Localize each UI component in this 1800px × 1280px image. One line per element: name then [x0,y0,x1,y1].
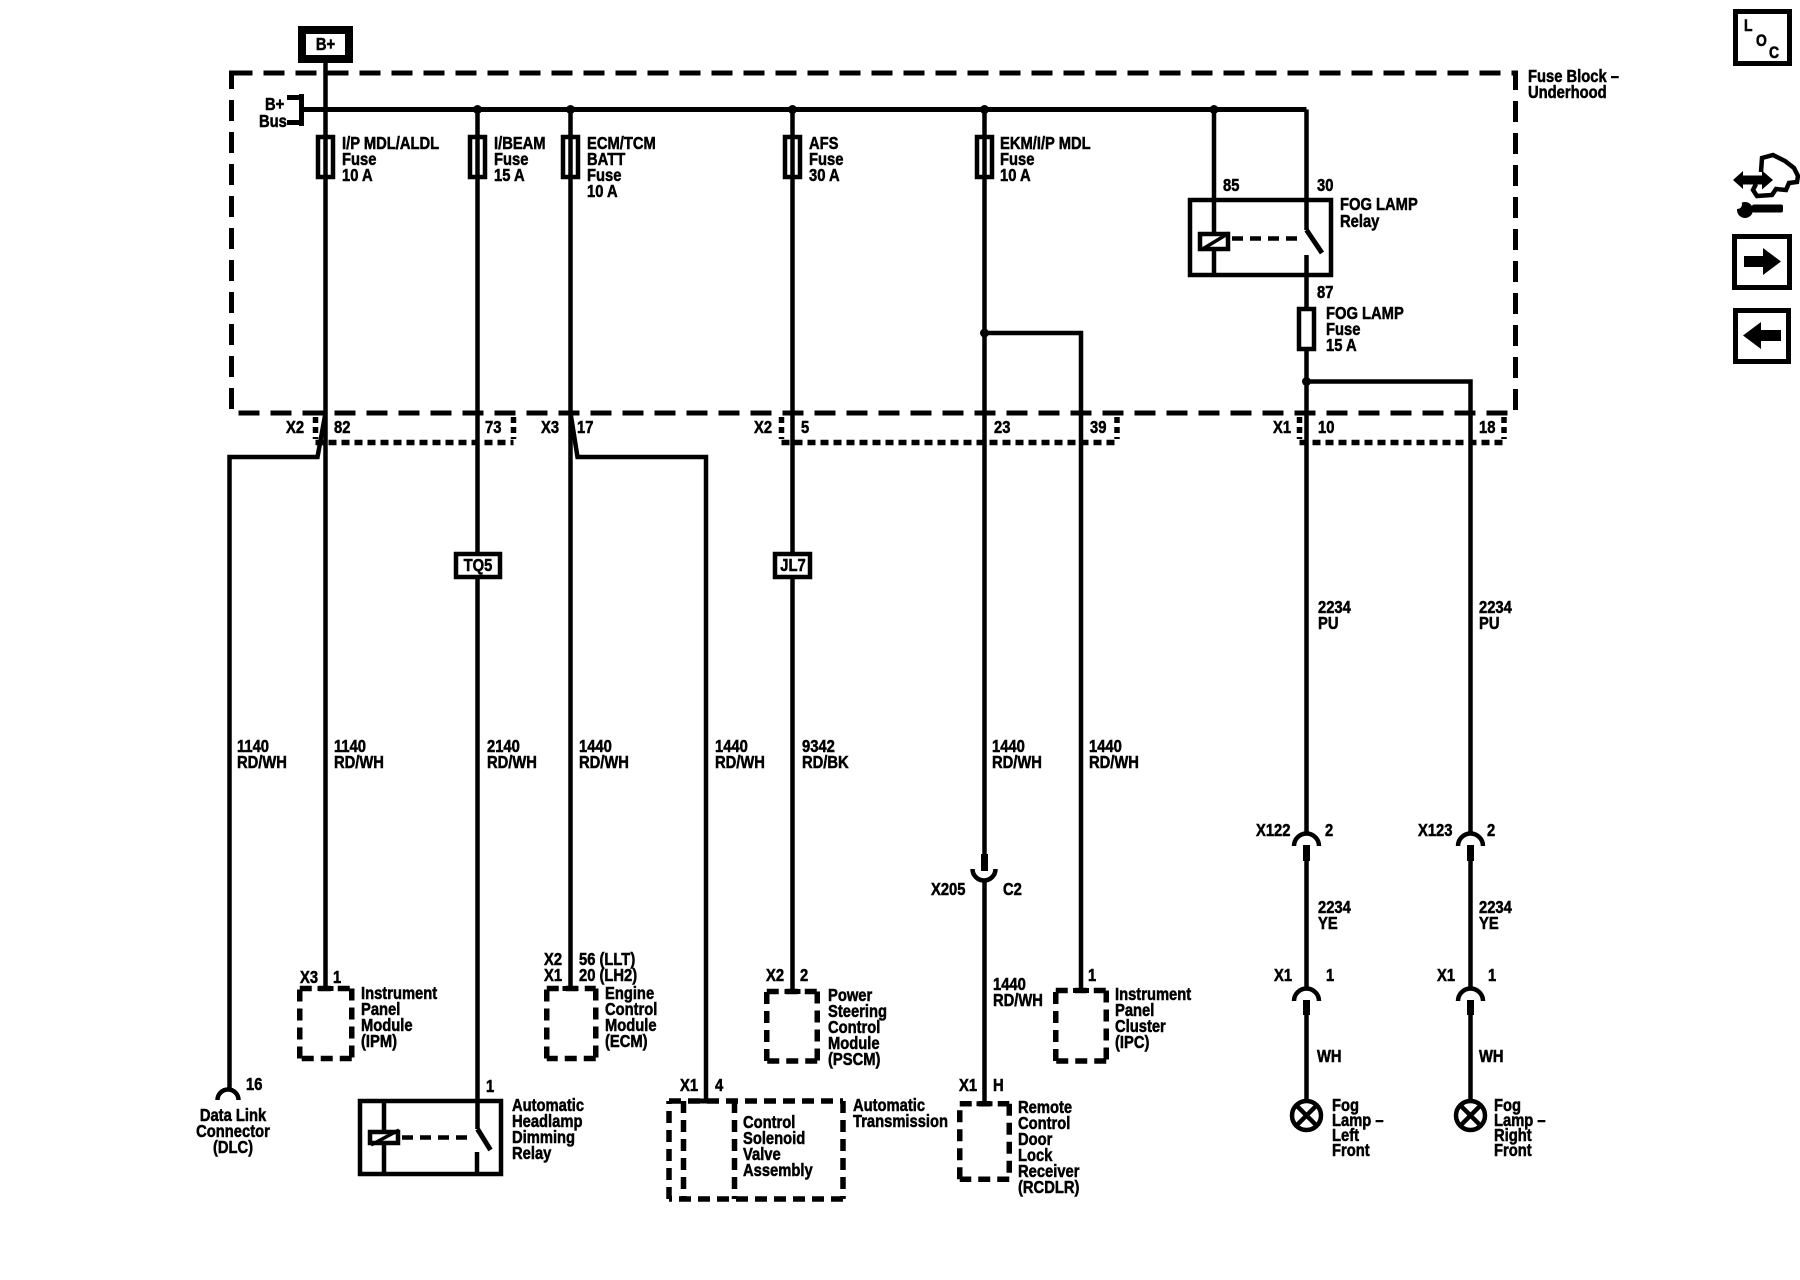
svg-text:1: 1 [1326,966,1334,986]
svg-text:1: 1 [1488,966,1496,986]
svg-text:(ECM): (ECM) [605,1032,648,1052]
svg-text:2: 2 [1487,821,1495,841]
svg-text:Relay: Relay [512,1144,552,1164]
svg-text:H: H [993,1076,1004,1096]
svg-text:18: 18 [1479,418,1495,438]
svg-text:TQ5: TQ5 [464,556,493,576]
svg-text:X205: X205 [931,880,965,900]
svg-text:X1: X1 [1437,966,1455,986]
svg-text:(RCDLR): (RCDLR) [1018,1178,1079,1198]
svg-text:X123: X123 [1418,821,1452,841]
svg-text:23: 23 [994,418,1010,438]
svg-text:X1: X1 [959,1076,977,1096]
svg-text:2: 2 [1325,821,1333,841]
svg-text:PU: PU [1318,614,1338,634]
svg-text:C2: C2 [1003,880,1022,900]
svg-text:RD/WH: RD/WH [237,753,287,773]
svg-text:39: 39 [1090,418,1106,438]
svg-text:20 (LH2): 20 (LH2) [579,966,637,986]
svg-text:30: 30 [1317,176,1333,196]
svg-text:1: 1 [1088,966,1096,986]
svg-text:Front: Front [1494,1141,1532,1161]
svg-text:5: 5 [801,418,809,438]
svg-text:2: 2 [800,966,808,986]
svg-text:WH: WH [1479,1047,1504,1067]
svg-text:X3: X3 [541,418,559,438]
svg-text:82: 82 [334,418,350,438]
svg-text:JL7: JL7 [780,556,805,576]
svg-text:RD/WH: RD/WH [715,753,765,773]
svg-text:73: 73 [485,418,501,438]
svg-text:YE: YE [1318,914,1338,934]
svg-text:RD/WH: RD/WH [993,991,1043,1011]
svg-text:10 A: 10 A [342,166,373,186]
svg-text:(PSCM): (PSCM) [828,1050,880,1070]
svg-text:X1: X1 [1273,418,1291,438]
svg-text:15 A: 15 A [1326,336,1357,356]
svg-text:10 A: 10 A [1000,166,1031,186]
svg-text:1: 1 [486,1077,494,1097]
svg-text:X1: X1 [1274,966,1292,986]
svg-text:17: 17 [577,418,593,438]
svg-text:16: 16 [246,1075,262,1095]
svg-text:RD/WH: RD/WH [334,753,384,773]
svg-text:RD/BK: RD/BK [802,753,849,773]
svg-text:85: 85 [1223,176,1239,196]
svg-text:X1: X1 [544,966,562,986]
svg-text:X2: X2 [766,966,784,986]
svg-text:Assembly: Assembly [743,1161,813,1181]
svg-text:WH: WH [1317,1047,1342,1067]
svg-text:(IPC): (IPC) [1115,1033,1149,1053]
svg-text:(DLC): (DLC) [213,1138,253,1158]
svg-text:YE: YE [1479,914,1499,934]
svg-text:(IPM): (IPM) [361,1032,397,1052]
svg-text:PU: PU [1479,614,1499,634]
svg-text:10 A: 10 A [587,182,618,202]
svg-text:87: 87 [1317,283,1333,303]
svg-text:X3: X3 [300,968,318,988]
svg-text:Relay: Relay [1340,212,1380,232]
svg-text:O: O [1756,32,1767,51]
svg-text:Transmission: Transmission [853,1112,948,1132]
svg-text:X2: X2 [286,418,304,438]
svg-text:1: 1 [333,968,341,988]
svg-text:10: 10 [1318,418,1334,438]
svg-text:Front: Front [1332,1141,1370,1161]
svg-text:X1: X1 [680,1076,698,1096]
svg-text:RD/WH: RD/WH [487,753,537,773]
svg-text:Bus: Bus [259,112,287,132]
svg-text:4: 4 [715,1076,724,1096]
svg-text:C: C [1769,44,1779,63]
svg-text:RD/WH: RD/WH [1089,753,1139,773]
svg-text:Underhood: Underhood [1528,83,1607,103]
svg-text:RD/WH: RD/WH [992,753,1042,773]
svg-text:30 A: 30 A [809,166,840,186]
svg-text:B+: B+ [316,35,335,55]
svg-text:X2: X2 [754,418,772,438]
svg-text:L: L [1744,17,1753,36]
svg-text:X122: X122 [1256,821,1290,841]
svg-text:15 A: 15 A [494,166,525,186]
svg-text:RD/WH: RD/WH [579,753,629,773]
